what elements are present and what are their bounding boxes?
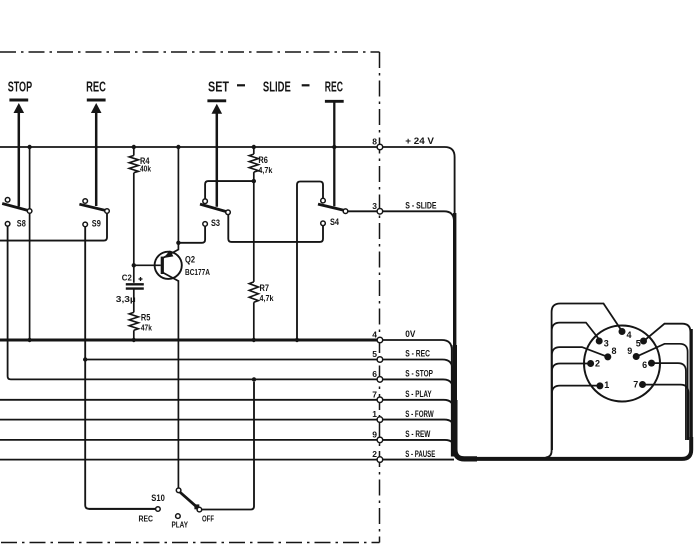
- svg-text:C2: C2: [122, 273, 132, 283]
- svg-text:7: 7: [633, 379, 638, 389]
- svg-text:S - FORW: S - FORW: [405, 409, 434, 419]
- svg-text:SLIDE: SLIDE: [263, 80, 291, 96]
- svg-text:REC: REC: [86, 79, 106, 95]
- svg-text:3: 3: [604, 338, 609, 348]
- svg-text:R6: R6: [258, 155, 268, 165]
- svg-text:8: 8: [612, 346, 617, 356]
- svg-text:S9: S9: [92, 219, 101, 229]
- svg-text:R5: R5: [141, 312, 151, 322]
- svg-text:SET: SET: [208, 80, 229, 96]
- svg-text:STOP: STOP: [8, 79, 33, 95]
- svg-text:4: 4: [372, 330, 377, 340]
- svg-text:+ 24 V: + 24 V: [405, 136, 434, 146]
- svg-text:S - REW: S - REW: [405, 429, 430, 439]
- svg-text:S - REC: S - REC: [405, 349, 430, 359]
- svg-text:S10: S10: [151, 493, 165, 503]
- svg-text:S - STOP: S - STOP: [405, 369, 433, 379]
- svg-text:R7: R7: [260, 283, 270, 293]
- svg-text:1: 1: [604, 380, 609, 390]
- svg-text:9: 9: [627, 346, 632, 356]
- svg-text:REC: REC: [139, 514, 154, 524]
- svg-text:4,7k: 4,7k: [260, 294, 274, 303]
- svg-text:1: 1: [372, 409, 377, 419]
- svg-text:S3: S3: [211, 218, 220, 228]
- svg-text:S4: S4: [330, 217, 339, 227]
- svg-text:S - SLIDE: S - SLIDE: [405, 201, 436, 211]
- svg-text:8: 8: [372, 137, 377, 147]
- svg-text:3,3µ: 3,3µ: [116, 294, 136, 304]
- svg-text:6: 6: [642, 360, 647, 370]
- svg-text:4: 4: [627, 330, 632, 340]
- svg-text:9: 9: [372, 430, 377, 440]
- svg-text:S - PAUSE: S - PAUSE: [405, 449, 435, 459]
- svg-text:2: 2: [372, 449, 377, 459]
- svg-text:S - PLAY: S - PLAY: [405, 389, 431, 399]
- svg-text:6: 6: [372, 369, 377, 379]
- svg-text:Q2: Q2: [185, 255, 195, 266]
- svg-text:2: 2: [595, 359, 600, 369]
- svg-text:0V: 0V: [405, 329, 415, 339]
- svg-text:PLAY: PLAY: [172, 520, 189, 530]
- svg-text:3: 3: [372, 201, 377, 211]
- svg-text:47k: 47k: [141, 324, 152, 333]
- svg-text:BC177A: BC177A: [185, 268, 210, 277]
- svg-text:S8: S8: [17, 218, 26, 228]
- svg-text:5: 5: [636, 338, 641, 348]
- svg-text:REC: REC: [325, 80, 344, 96]
- svg-text:40k: 40k: [140, 165, 151, 174]
- svg-text:5: 5: [372, 349, 377, 359]
- svg-text:4,7k: 4,7k: [258, 166, 272, 175]
- svg-text:OFF: OFF: [202, 514, 214, 524]
- svg-text:7: 7: [372, 389, 377, 399]
